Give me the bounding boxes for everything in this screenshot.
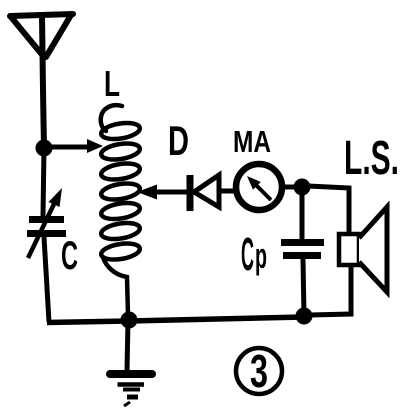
node B junction coil/ground/bus xyxy=(121,312,138,329)
svg-text:p: p xyxy=(255,235,267,276)
svg-text:L.S.: L.S. xyxy=(344,132,399,185)
svg-text:MA: MA xyxy=(233,124,271,159)
capacitor Cp xyxy=(281,243,324,256)
wire C down to bottom bus xyxy=(44,237,49,322)
meter MA xyxy=(236,164,282,210)
svg-text:L: L xyxy=(104,63,120,104)
label Cp xyxy=(241,228,267,280)
svg-text:C: C xyxy=(61,234,78,278)
wire meter to node D xyxy=(282,185,298,190)
wire node D down to Cp xyxy=(300,195,305,239)
node C junction Cp/LS/bus xyxy=(296,308,313,325)
node A junction antenna/C/coil-tap xyxy=(36,140,53,157)
wire tap from node A to coil with arrow xyxy=(51,139,103,153)
loudspeaker L.S. xyxy=(339,207,387,292)
svg-text:3: 3 xyxy=(250,345,268,397)
wire node D to loudspeaker xyxy=(308,186,349,234)
wire antenna lead down to C xyxy=(43,148,44,216)
wire loudspeaker down to bottom bus xyxy=(310,265,351,315)
inductor L (coil) xyxy=(100,105,141,316)
node D junction meter/Cp/LS xyxy=(294,179,311,196)
variable capacitor C xyxy=(27,188,66,258)
wire bottom bus xyxy=(47,317,304,323)
diode D xyxy=(137,175,237,211)
wire Cp down to bottom bus xyxy=(303,259,304,316)
ground xyxy=(110,320,152,406)
antenna xyxy=(10,14,73,148)
figure number 3 (circled) xyxy=(236,345,282,397)
svg-text:C: C xyxy=(241,228,254,280)
svg-text:D: D xyxy=(168,117,189,164)
